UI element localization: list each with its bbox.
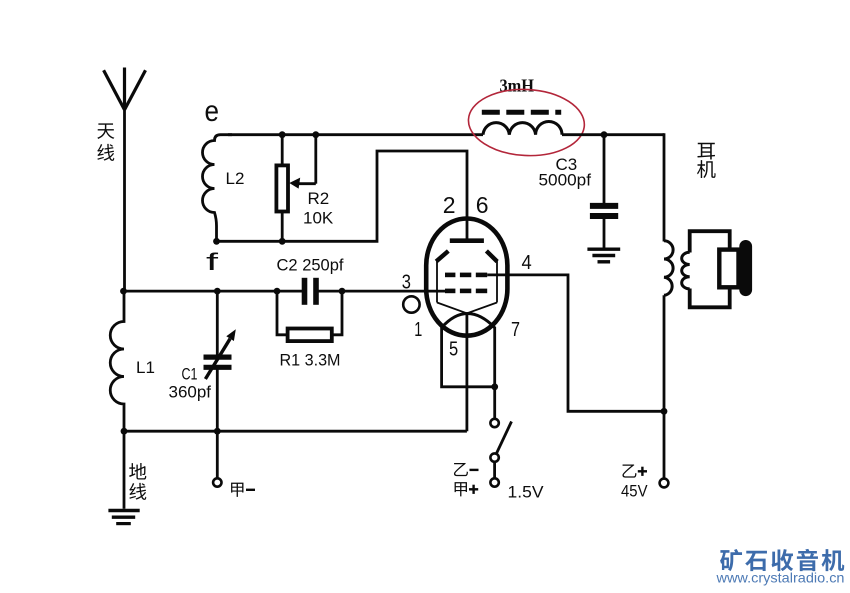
terminal A- xyxy=(213,478,221,486)
terminal battery A+ xyxy=(490,478,498,486)
wire grid bus left xyxy=(124,290,303,293)
svg-text:f: f xyxy=(206,249,219,276)
wire top bus e xyxy=(228,133,483,136)
resistor R2 xyxy=(276,165,288,211)
svg-text:3mH: 3mH xyxy=(500,76,535,96)
earphone case xyxy=(719,250,738,288)
wire C1 bottom lead xyxy=(216,370,219,432)
svg-text:5: 5 xyxy=(449,338,458,360)
capacitor C1 xyxy=(204,357,232,367)
wire headphone drop xyxy=(663,133,666,241)
wire C3 to ground xyxy=(603,219,606,248)
node R2 wiper junction xyxy=(312,131,319,138)
label 乙- xyxy=(454,463,479,476)
node C1 bottom xyxy=(214,428,221,435)
tube control grid dashes xyxy=(445,289,487,294)
wire C1 top lead xyxy=(216,291,219,355)
capacitor C3 xyxy=(590,206,618,216)
tube shield right xyxy=(486,251,497,262)
node C3 junction xyxy=(601,131,608,138)
red highlight ellipse xyxy=(467,87,586,159)
label 乙+ xyxy=(622,464,647,477)
label 耳机 xyxy=(697,143,716,178)
svg-text:1.5V: 1.5V xyxy=(508,483,545,502)
svg-text:45V: 45V xyxy=(621,482,648,501)
wire R2 bottom lead xyxy=(281,212,284,242)
tube plate xyxy=(450,238,484,243)
tube screen grid dashes xyxy=(445,273,487,278)
node L2 bottom f xyxy=(213,238,220,245)
label ground 地线 xyxy=(129,463,146,500)
node R2 top junction xyxy=(279,131,286,138)
wire C3 lead xyxy=(603,135,606,203)
inductor L2 xyxy=(203,135,233,242)
node bottom bus left xyxy=(121,428,128,435)
wire choke to C3 node xyxy=(562,133,664,136)
label antenna 天线 xyxy=(97,123,114,161)
svg-text:L2: L2 xyxy=(226,169,245,188)
core dashed line xyxy=(482,110,561,115)
tube shield left xyxy=(436,251,448,261)
node B+ junction xyxy=(661,408,668,415)
svg-text:R1 3.3M: R1 3.3M xyxy=(280,351,341,370)
switch S1 bottom contact xyxy=(490,453,498,461)
node filament junction xyxy=(491,383,498,390)
svg-text:6: 6 xyxy=(476,192,489,218)
svg-text:R2: R2 xyxy=(308,189,330,208)
svg-text:C2 250pf: C2 250pf xyxy=(277,256,344,275)
node grid bus left xyxy=(120,288,127,295)
svg-text:7: 7 xyxy=(511,319,520,341)
grid cap node circle xyxy=(403,296,419,312)
node R2 bottom junction xyxy=(279,238,286,245)
svg-text:360pf: 360pf xyxy=(169,383,212,402)
svg-text:2: 2 xyxy=(443,192,456,218)
label 甲+ xyxy=(455,482,479,496)
wire A- stub xyxy=(216,431,219,478)
svg-text:e: e xyxy=(205,95,220,128)
terminal B+ xyxy=(660,479,669,488)
ground earth xyxy=(108,511,139,524)
wire antenna lead xyxy=(123,108,126,291)
svg-text:10K: 10K xyxy=(303,209,334,228)
capacitor C2 xyxy=(305,278,317,305)
earphone diaphragm xyxy=(739,240,752,296)
switch S1 blade xyxy=(496,422,512,456)
wiper R2 arm xyxy=(289,135,316,189)
inductor 3mH choke xyxy=(483,121,562,134)
switch S1 top contact xyxy=(490,419,498,427)
transformer T1 secondary loop xyxy=(690,231,730,307)
wire R2 top lead xyxy=(281,135,284,166)
transformer T1 secondary coil xyxy=(682,252,690,289)
ground C3 xyxy=(587,249,620,262)
resistor R1 xyxy=(288,329,332,342)
wire switch to battery xyxy=(493,462,496,479)
svg-text:4: 4 xyxy=(522,252,532,274)
watermark site name xyxy=(720,549,844,571)
wire primary to B+ node xyxy=(663,295,666,478)
wire R1 left lead xyxy=(277,291,288,335)
wire bottom bus xyxy=(124,430,467,433)
antenna xyxy=(104,68,146,110)
inductor L1 xyxy=(110,291,124,431)
arrow C1 variable xyxy=(205,329,235,379)
svg-text:1: 1 xyxy=(414,319,422,341)
wire screen to B+ xyxy=(487,275,664,411)
wire ground stub xyxy=(123,431,126,509)
tube grid frame xyxy=(437,260,497,313)
svg-text:L1: L1 xyxy=(136,358,155,377)
wire f net xyxy=(217,151,468,241)
svg-text:www.crystalradio.cn: www.crystalradio.cn xyxy=(715,571,844,586)
wire R1 right lead xyxy=(332,291,342,335)
wire pin5 lead xyxy=(465,313,468,431)
node C2 left xyxy=(274,288,281,295)
node C2 right xyxy=(339,288,346,295)
wire pin7 leg xyxy=(493,327,496,419)
tube V1 envelope xyxy=(426,219,507,336)
svg-text:5000pf: 5000pf xyxy=(539,171,592,190)
svg-text:C1: C1 xyxy=(182,365,198,384)
label 甲- xyxy=(231,483,255,497)
transformer T1 primary xyxy=(664,241,673,295)
wire grid bus right xyxy=(319,290,446,293)
tube filament xyxy=(442,314,495,328)
node C1 top xyxy=(214,288,221,295)
wire pin1 leg xyxy=(442,327,495,387)
